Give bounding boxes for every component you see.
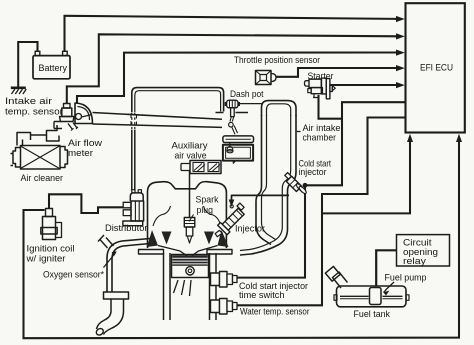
throttle position sensor icon [256,71,277,85]
arrowhead ECU pin 5 [396,82,405,88]
fuel line to injector with arrow [229,195,289,208]
exhaust pipe with oxygen sensor [95,239,150,337]
svg-text:w/ igniter: w/ igniter [25,254,65,264]
leader spark plug [189,215,194,222]
wire ECU bottom feed 1 [322,140,410,213]
svg-text:Circuit: Circuit [403,238,432,248]
svg-text:Spark: Spark [196,195,219,205]
arrowhead ECU pin 2 [396,33,405,39]
svg-text:injector: injector [299,167,327,177]
svg-text:temp. sensor: temp. sensor [5,107,63,117]
svg-text:Air cleaner: Air cleaner [21,173,64,183]
fuel pump P [370,288,382,305]
wire battery negative to ground [18,42,37,87]
svg-text:Air intake: Air intake [303,123,341,133]
arrowhead ECU bottom feed 2 [456,134,462,142]
filler neck [333,272,348,288]
wire ignition coil to distributor [49,194,123,213]
leader fuel pump arrow [386,282,395,290]
cold start injector icon [285,173,307,195]
wire cold start injector time switch branch [237,185,306,277]
svg-text:air valve: air valve [175,151,207,161]
air cleaner assembly [11,125,68,169]
spark plug [184,218,195,244]
svg-text:Intake air: Intake air [5,96,52,106]
wire circuit opening relay to fuel pump [376,250,396,286]
wire cold start injector to ECU pin 6 [307,102,406,185]
dash pot [216,100,249,134]
wire water temp sensor to ECU pin 7 [237,118,406,306]
svg-text:Injector: Injector [235,224,265,234]
intake valves [147,230,229,247]
intake duct from air flow meter to throttle body [93,113,223,128]
arrowhead ECU pin 1 [396,16,405,22]
battery B1 [33,56,70,79]
svg-text:Fuel pump: Fuel pump [385,273,427,283]
throttle body [181,161,221,174]
piston [172,255,209,297]
svg-text:Water temp. sensor: Water temp. sensor [240,307,310,317]
ignition coil [41,209,62,240]
battery terminal left [35,51,40,55]
wire air flow meter body to ECU pin 3 [77,53,398,104]
wire air flow meter signal to ECU pin 2 [67,34,398,103]
head slabs [139,250,233,255]
svg-text:meter: meter [68,148,93,158]
fuel tank [325,266,409,306]
intake air temp sensor (on air flow meter) [60,104,75,122]
svg-text:EFI ECU: EFI ECU [420,63,453,73]
svg-text:relay: relay [403,256,427,266]
cylinder walls [164,253,217,320]
EFI ECU box [406,3,465,132]
wire ECU bottom feed 2 main loop to ignition coil [24,140,460,338]
svg-text:time switch: time switch [239,290,285,300]
circuit opening relay box [397,235,450,266]
air flow meter body [54,103,93,131]
svg-text:Fuel tank: Fuel tank [354,309,391,319]
wire battery positive to EFI ECU pin 1 [65,16,399,52]
water temp sensor [211,299,238,315]
combustion chamber line [158,246,218,258]
node cold start injector junction [303,183,308,188]
air intake chamber plenum outline [132,88,296,255]
oxygen sensor stub [98,235,114,248]
svg-text:Throttle position sensor: Throttle position sensor [234,55,320,65]
svg-text:Battery: Battery [39,63,68,74]
wire starter lower terminal junction [319,95,343,119]
svg-text:Ignition coil: Ignition coil [27,244,75,254]
svg-text:Dash pot: Dash pot [230,89,264,99]
wire starter to ECU pin 5 [331,84,399,86]
svg-text:Distributor: Distributor [105,223,148,233]
svg-text:Air flow: Air flow [68,138,103,148]
battery terminal right [63,51,68,55]
distributor [123,190,144,226]
injector icon [215,203,244,237]
BOXES [33,3,465,266]
auxiliary air valve [223,136,254,163]
arrowhead ECU bottom feed 1 [407,134,413,142]
svg-text:chamber: chamber [303,133,337,143]
wire throttle position sensor to ECU pin 4 [276,68,398,77]
ground [11,88,26,94]
starter icon [305,78,336,99]
leader air intake chamber [297,131,301,133]
COMPONENT DRAWINGS [11,71,410,337]
engine valve cover [148,182,227,248]
leader oxygen sensor [104,254,116,268]
svg-text:Auxiliary: Auxiliary [172,141,209,151]
svg-text:Oxygen sensor*: Oxygen sensor* [43,270,104,280]
cold start injector time switch sensor [211,272,238,288]
spark plug lead [189,171,191,218]
arrowhead ECU pin 4 [396,65,405,71]
arrowhead ECU pin 3 [396,50,405,56]
